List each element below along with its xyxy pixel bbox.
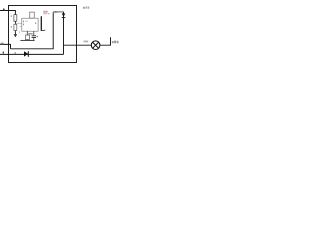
node +Ub label	[112, 41, 119, 44]
wire bottom rail	[0, 53, 64, 55]
wire bottom node under U1	[20, 39, 34, 41]
wire divider node to IC pin	[15, 22, 21, 24]
wire supply riser	[11, 12, 54, 49]
U1 pin number 3	[35, 22, 36, 24]
resistor R2	[14, 24, 17, 30]
net label al.1	[83, 6, 89, 8]
node A label	[3, 9, 5, 11]
node 0V label	[1, 43, 4, 45]
resistor R2 label	[11, 26, 12, 28]
transistor Q1 collector line	[40, 16, 42, 31]
wire lamp to terminal	[100, 37, 111, 45]
resistor R1 label	[11, 15, 12, 17]
wire U1 pin to C2	[33, 31, 35, 35]
wire C1 to bottom node	[26, 39, 28, 42]
lamp H1	[91, 41, 100, 50]
op-amp U1 box	[22, 18, 38, 31]
lamp label	[84, 41, 89, 43]
node B label	[3, 52, 4, 54]
wire input top (terminal A)	[0, 11, 15, 15]
wire C2 to bottom node	[33, 38, 35, 41]
wire R2 to ground	[14, 31, 16, 35]
diode D2 freewheel	[62, 13, 66, 17]
capacitor C1 (box element)	[25, 35, 29, 40]
U1 pin number 6	[23, 24, 24, 26]
C2 polarity plus	[36, 36, 38, 38]
U1 left pin stub	[20, 26, 22, 28]
wire input mid (0V terminal)	[0, 44, 11, 48]
wire R1 to R2	[14, 21, 16, 24]
U1 pin number 2	[23, 21, 24, 23]
transistor Q1 emitter tick	[41, 30, 45, 32]
diode D1	[24, 51, 28, 57]
U1 inner mark	[25, 20, 28, 23]
frame border of schematic	[9, 6, 77, 63]
U1 label IC1	[28, 33, 32, 35]
wire lamp branch	[64, 44, 92, 46]
wire D2 cathode down to rail	[63, 12, 65, 55]
resistor R1	[14, 15, 17, 22]
ground	[14, 34, 17, 37]
capacitor C2	[32, 36, 36, 38]
reset box on top of U1	[30, 12, 34, 18]
wire U1 pin to C1	[26, 31, 28, 35]
relay label Rel	[43, 11, 48, 13]
junction tick on rail	[14, 52, 17, 54]
U1 bottom-left pin stub	[19, 31, 21, 33]
